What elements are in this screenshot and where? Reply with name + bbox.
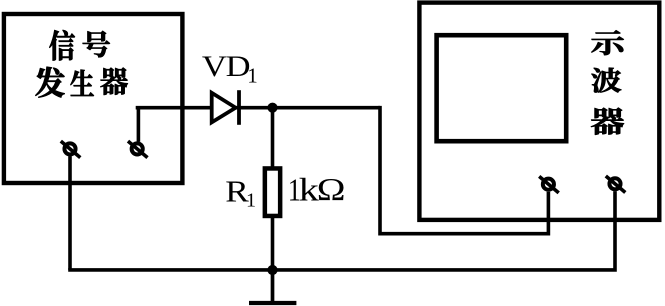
oscilloscope screen bbox=[437, 35, 567, 141]
label 器 bbox=[591, 108, 624, 135]
wire right side down to oscilloscope input bbox=[380, 106, 548, 234]
terminal SG right bbox=[128, 141, 148, 158]
label 发 bbox=[35, 67, 64, 98]
node B junction dot bbox=[267, 265, 277, 275]
svg-text:Ω: Ω bbox=[317, 171, 346, 207]
terminal SG left bbox=[61, 141, 81, 158]
svg-text:1: 1 bbox=[246, 190, 256, 212]
wire from generator ground terminal down bbox=[68, 156, 72, 270]
svg-text:1: 1 bbox=[247, 64, 257, 88]
oscilloscope box bbox=[419, 3, 659, 220]
bottom ground bus wire bbox=[68, 191, 615, 270]
node A junction dot bbox=[267, 103, 277, 113]
label 信 bbox=[49, 30, 75, 60]
label 号 bbox=[83, 31, 110, 57]
ground stem bbox=[271, 270, 275, 303]
terminal OSC left bbox=[539, 176, 559, 193]
svg-text:V: V bbox=[202, 49, 227, 82]
wire through diode to corner bbox=[136, 106, 380, 110]
label 示 bbox=[591, 30, 623, 55]
wire from generator output up to diode row bbox=[137, 108, 141, 142]
label 生 bbox=[70, 70, 93, 96]
signal generator box bbox=[4, 14, 183, 183]
label 波 bbox=[592, 68, 622, 93]
resistor R1 bbox=[265, 168, 280, 216]
wire resistor bottom to node B bbox=[271, 216, 275, 270]
terminal OSC right bbox=[606, 176, 626, 193]
ground bar bbox=[249, 301, 296, 305]
wire node A to resistor top bbox=[271, 108, 275, 168]
label 器 bbox=[100, 68, 127, 95]
diode VD1 bbox=[212, 90, 239, 125]
